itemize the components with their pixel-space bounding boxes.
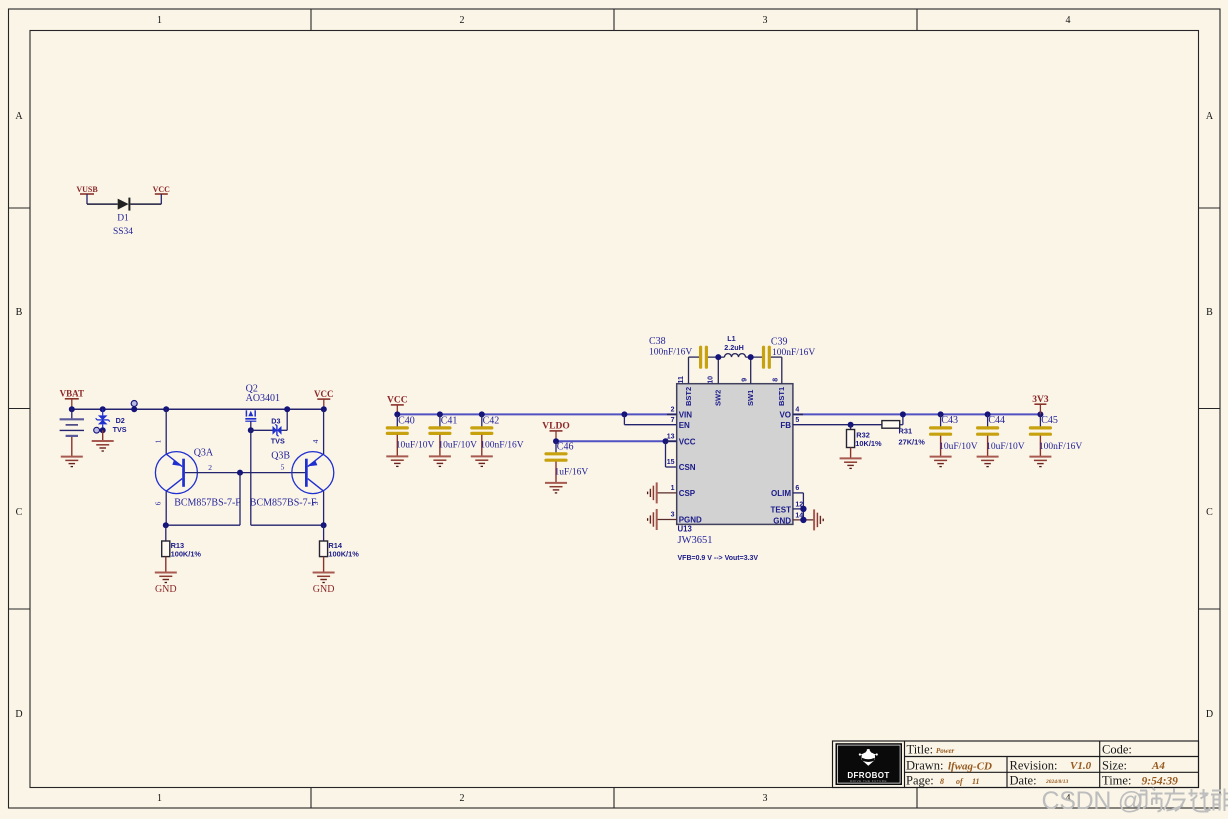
node TEST [800,506,806,512]
wire VCC-CSN jog [666,441,677,467]
svg-text:C39: C39 [771,336,788,347]
diode D1 [113,198,133,237]
ground at CSP [648,482,657,503]
inductor L1 [724,334,745,357]
svg-text:C38: C38 [649,336,666,347]
svg-text:1uF/16V: 1uF/16V [555,467,589,477]
power port VCC mid [387,396,408,415]
svg-text:A4: A4 [1151,760,1165,772]
ground under C40 [386,456,408,466]
svg-text:10uF/10V: 10uF/10V [939,442,978,452]
svg-text:2: 2 [671,407,675,414]
ground at GND pin [814,509,823,530]
capacitor C39 [764,336,816,367]
capacitor C46 [546,438,588,483]
ground under C46 [545,483,567,493]
svg-text:C44: C44 [988,415,1005,426]
ground under C45 [1029,457,1051,467]
transistor Q3A [155,448,241,509]
svg-text:AO3401: AO3401 [246,393,280,404]
svg-text:10uF/10V: 10uF/10V [438,440,477,450]
svg-text:SS34: SS34 [113,227,133,237]
svg-text:C40: C40 [398,415,415,426]
capacitor C44 [978,411,1025,456]
power port VCC mid-left [314,389,334,409]
title block text [906,743,1178,788]
capacitor C42 [472,411,524,456]
svg-text:15: 15 [667,459,675,466]
title block grid [833,741,1199,788]
pin 9 SW1 [741,357,755,406]
wire Q3A collector [165,409,167,454]
capacitor C38 [649,336,706,367]
svg-text:1: 1 [671,485,675,492]
svg-text:D: D [1206,709,1213,720]
svg-text:6: 6 [154,501,163,505]
svg-text:SW2: SW2 [714,390,723,406]
svg-text:Q3A: Q3A [194,448,214,459]
node R31 top [900,411,906,417]
svg-text:100K/1%: 100K/1% [171,549,202,558]
svg-text:B: B [16,307,23,318]
svg-text:A: A [15,111,23,122]
pin 2 VIN [667,407,692,420]
svg-text:CSP: CSP [679,489,696,498]
node R14 top [321,522,327,528]
node R13 top [163,522,169,528]
node Q3A collector tap [131,406,137,412]
capacitor C41 [430,411,477,456]
transistor Q3B [250,452,334,509]
svg-text:BST2: BST2 [684,387,693,406]
svg-text:Size:: Size: [1102,758,1127,772]
pin 3 PGND [658,512,703,525]
node VCC rail end [321,406,327,412]
pin 12 TEST [771,501,804,514]
watermark CSDN [1042,787,1228,815]
pin 4 VO stub [793,413,803,415]
pin 11 BST2 [678,357,693,406]
svg-text:D2: D2 [116,416,125,425]
svg-text:C: C [16,507,23,518]
node GND pin [800,517,806,523]
pin 13 VCC [667,433,696,446]
pin 10 SW2 [708,357,723,406]
node VCC pin jog [663,438,669,444]
svg-text:GND: GND [313,584,335,595]
svg-text:C: C [1206,507,1213,518]
node SW2 [715,354,721,360]
svg-text:lfwag-CD: lfwag-CD [948,760,992,772]
svg-text:8: 8 [940,777,944,786]
capacitor C40 [387,411,434,456]
battery BT [60,409,84,456]
svg-text:D3: D3 [271,416,280,425]
power port VCC top [153,185,171,204]
svg-text:GND: GND [155,584,177,595]
ground under R14 [313,573,335,596]
wire Q3A emitter [165,491,167,525]
capacitor C43 [931,411,978,456]
pin 7 EN [671,417,690,430]
svg-text:11: 11 [972,777,980,786]
svg-text:2: 2 [208,463,212,472]
resistor R31 [882,421,925,447]
svg-text:Power: Power [936,747,955,755]
resistor R13 [162,525,202,572]
ground under C44 [977,457,999,467]
svg-text:11: 11 [678,376,685,384]
wire FB [793,424,882,426]
wire R31 to VO [900,414,903,424]
svg-text:C46: C46 [557,442,574,453]
svg-text:2024/8/13: 2024/8/13 [1045,779,1069,785]
wire Q3B emitter [323,491,325,525]
svg-text:U13: U13 [678,525,693,534]
svg-text:V1.0: V1.0 [1070,760,1092,772]
ground under battery [61,457,83,467]
svg-text:4: 4 [1066,15,1071,26]
svg-text:100nF/16V: 100nF/16V [480,440,523,450]
svg-text:27K/1%: 27K/1% [899,437,926,446]
pin 8 BST1 [772,357,786,406]
wire TEST stub [793,508,804,510]
ground under C43 [930,457,952,467]
wire OLIM jog [793,493,804,520]
node D3 top [284,406,290,412]
wire D2 to ground [102,430,104,441]
svg-text:3: 3 [763,793,768,804]
svg-text:TVS: TVS [113,425,127,434]
wire VBAT rail [72,408,324,410]
pin 4 VO [779,407,803,420]
resistor R14 [320,525,360,572]
test point on VBAT rail [131,401,137,410]
power port 3V3 [1032,395,1049,414]
svg-text:13: 13 [667,433,675,440]
pin 6 OLIM [771,485,799,498]
pin 1 CSP [658,485,696,498]
ground under R13 [155,573,177,596]
svg-text:A: A [1206,111,1214,122]
power port VUSB [76,185,98,204]
diode D3 TVS [271,416,285,445]
svg-text:B: B [1206,307,1213,318]
svg-text:100nF/16V: 100nF/16V [772,348,815,358]
wire C38 to SW2 [708,356,725,358]
svg-text:DRIVE THE FUTURE: DRIVE THE FUTURE [850,779,887,783]
svg-text:VCC: VCC [679,437,696,446]
wire D3 left [251,429,273,431]
svg-text:L1: L1 [727,334,735,343]
ground under C41 [429,456,451,466]
svg-text:C43: C43 [941,415,958,426]
no-ERC marker at D2 [94,427,100,433]
svg-text:R31: R31 [899,426,913,435]
DFROBOT logo [836,743,903,785]
svg-text:3: 3 [671,512,675,519]
wire Q3A base [185,472,306,474]
wire VO bus [793,413,1041,415]
svg-text:D1: D1 [117,213,129,223]
svg-text:4: 4 [311,439,320,443]
power port VLDO [542,422,569,442]
ground under R32 [840,458,862,468]
svg-text:CSN: CSN [679,463,696,472]
svg-text:1: 1 [157,15,162,26]
op-amp U13 JW3651 body [677,384,793,546]
node EN tap [621,411,627,417]
pin 5 FB [780,417,799,430]
wire C39 to BST1 [771,356,782,358]
svg-text:GND: GND [773,516,791,525]
node D2 bottom [100,427,106,433]
svg-text:100nF/16V: 100nF/16V [1039,442,1082,452]
svg-text:6: 6 [795,485,799,492]
svg-text:10uF/10V: 10uF/10V [396,440,435,450]
node base junction [237,470,243,476]
transistor Q2 AO3401 symbol [245,410,256,430]
svg-text:Title:: Title: [907,743,934,757]
svg-text:C41: C41 [441,415,458,426]
node D2 top [100,406,106,412]
svg-text:Date:: Date: [1010,774,1037,788]
svg-text:BST1: BST1 [777,387,786,406]
resistor R32 [847,425,883,459]
svg-text:3: 3 [763,15,768,26]
svg-text:BCM857BS-7-F: BCM857BS-7-F [174,498,241,509]
svg-text:10K/1%: 10K/1% [855,439,882,448]
svg-text:BCM857BS-7-F: BCM857BS-7-F [250,498,317,509]
svg-text:VCC: VCC [153,185,171,194]
svg-text:C45: C45 [1041,415,1058,426]
svg-text:D: D [15,709,22,720]
svg-text:Code:: Code: [1102,743,1132,757]
svg-text:2.2uH: 2.2uH [724,343,744,352]
wire Q3B collector [323,409,325,454]
svg-text:PGND: PGND [679,516,702,525]
svg-text:EN: EN [679,421,690,430]
svg-text:5: 5 [795,417,799,424]
wire L1 to SW1 [746,356,763,358]
wire D3 to VCC rail [282,409,288,430]
wire D1 to VCC [130,203,161,205]
pin 15 CSN [667,459,696,472]
svg-text:JW3651: JW3651 [678,535,713,546]
svg-text:10uF/10V: 10uF/10V [986,442,1025,452]
wire VCC bus to VIN [397,413,676,415]
ground under D2 [92,441,114,451]
svg-text:FB: FB [780,421,791,430]
svg-text:VUSB: VUSB [76,185,98,194]
svg-text:TVS: TVS [271,437,285,446]
wire BST2 to C38 [689,356,700,358]
wire base to rail [239,473,241,526]
capacitor C45 [1030,411,1082,456]
svg-text:CSDN @: CSDN @ [1042,787,1143,815]
wire emitter rail right [251,524,324,526]
svg-text:VCC: VCC [314,389,334,399]
svg-text:5: 5 [281,463,285,472]
node R32 top [848,422,854,428]
svg-text:VIN: VIN [679,411,693,420]
svg-text:Page:: Page: [906,774,934,788]
svg-text:Revision:: Revision: [1010,758,1058,772]
wire EN jog [624,414,676,424]
svg-text:Time:: Time: [1102,774,1131,788]
wire emitter rail left [166,524,240,526]
wire GND stub [793,519,814,521]
svg-text:4: 4 [795,407,799,414]
svg-text:8: 8 [772,378,779,382]
svg-text:10: 10 [708,376,715,384]
svg-text:VO: VO [779,411,791,420]
svg-text:Drawn:: Drawn: [906,758,944,772]
ground at PGND [648,509,657,530]
svg-text:C42: C42 [483,415,500,426]
svg-text:SW1: SW1 [746,390,755,406]
node Q2 source [248,427,254,433]
svg-text:9:54:39: 9:54:39 [1142,775,1179,787]
diode D2 TVS [96,409,127,434]
node VBAT [69,406,75,412]
svg-text:Q3B: Q3B [271,451,290,462]
svg-text:3: 3 [311,501,320,505]
pin 14 GND [773,512,803,525]
svg-text:1: 1 [157,793,162,804]
svg-text:VBAT: VBAT [60,389,84,399]
svg-text:VFB=0.9 V --> Vout=3.3V: VFB=0.9 V --> Vout=3.3V [678,555,759,562]
svg-text:100K/1%: 100K/1% [328,549,359,558]
transistor Q2 label [246,384,280,405]
ground under C42 [471,456,493,466]
svg-text:100nF/16V: 100nF/16V [649,347,692,357]
wire VLDO to VCC pin [556,440,677,442]
svg-text:7: 7 [671,417,675,424]
svg-text:9: 9 [741,378,748,382]
svg-text:2: 2 [460,15,465,26]
power port VBAT [60,389,84,410]
svg-text:OLIM: OLIM [771,489,791,498]
svg-text:TEST: TEST [771,505,792,514]
svg-text:1: 1 [154,439,163,443]
wire D3 node to rail [250,430,252,525]
node SW1 [748,354,754,360]
svg-text:2: 2 [460,793,465,804]
wire VUSB to D1 [87,203,118,205]
